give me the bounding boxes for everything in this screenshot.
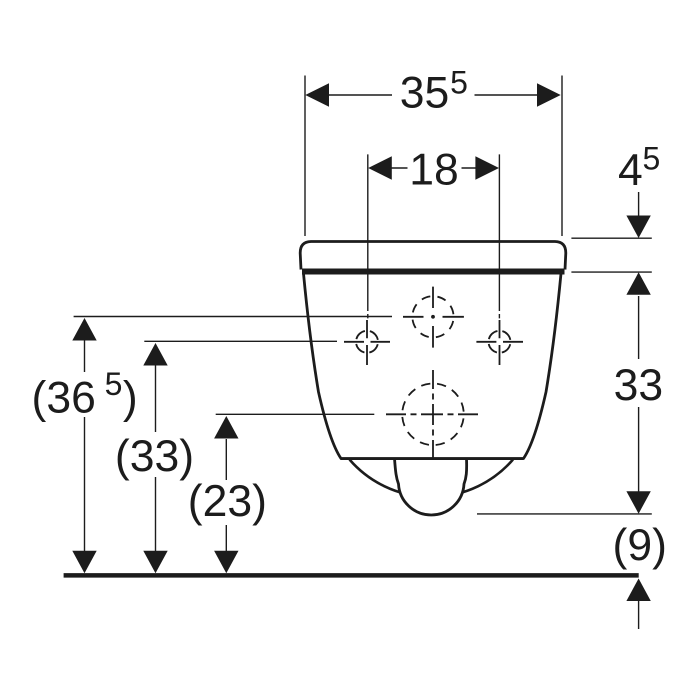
svg-text:(23): (23)	[188, 477, 267, 526]
bowl bottom edge line	[341, 457, 524, 460]
svg-text:(36: (36	[32, 373, 96, 422]
dimension 33 right: line + arrows	[638, 296, 640, 492]
outlet hole centerlines	[386, 413, 479, 415]
svg-text:33: 33	[614, 361, 664, 410]
text (36-5)	[32, 366, 138, 422]
dimension 18: extension lines	[368, 154, 500, 318]
outlet U-shape	[395, 459, 467, 515]
dimension 36-5: line + arrows	[84, 340, 86, 552]
dimension 36-5 left: extension line	[74, 316, 392, 318]
text 4-5	[618, 140, 660, 195]
dimension 4-5 right: extension lines	[571, 238, 651, 272]
dimension 4-5: leader + arrow down	[638, 192, 640, 216]
toilet bowl body	[304, 274, 562, 459]
dimension 18: dimension line	[391, 167, 477, 169]
dimension 23 left: extension line	[216, 413, 375, 415]
dimension 9: top extension line	[477, 513, 652, 515]
svg-text:(9): (9)	[613, 521, 667, 570]
text 35-5	[400, 65, 468, 118]
svg-text:): )	[123, 373, 138, 422]
outlet hole: dashed circle	[402, 384, 464, 446]
floor line	[64, 573, 639, 578]
dark gap band under seat	[302, 269, 565, 275]
svg-text:4: 4	[618, 146, 643, 195]
right mounting hole	[489, 331, 511, 353]
svg-text:(33): (33)	[115, 432, 194, 481]
svg-text:35: 35	[400, 69, 450, 118]
svg-text:18: 18	[409, 145, 459, 194]
dimension 9: arrow up below floor	[638, 601, 640, 629]
svg-text:5: 5	[450, 65, 468, 101]
water supply hole crosshair	[403, 287, 464, 348]
dimension 33 left: line + arrows	[155, 365, 157, 552]
left mounting hole	[356, 331, 378, 353]
dimension 33 left: extension line	[144, 340, 337, 342]
water supply hole: dashed circle	[412, 296, 453, 337]
bowl lower rim arc	[350, 460, 514, 497]
dimension 35-5: dimension line	[328, 94, 538, 96]
svg-text:5: 5	[643, 140, 661, 176]
dimension 23 left: line + arrows	[225, 439, 227, 552]
dimension 35-5: extension lines	[305, 76, 562, 237]
svg-text:5: 5	[105, 366, 123, 402]
seat / lid	[300, 242, 566, 270]
dimension 18: arrowheads	[368, 156, 499, 179]
dimension 35-5: arrowheads	[305, 83, 560, 106]
